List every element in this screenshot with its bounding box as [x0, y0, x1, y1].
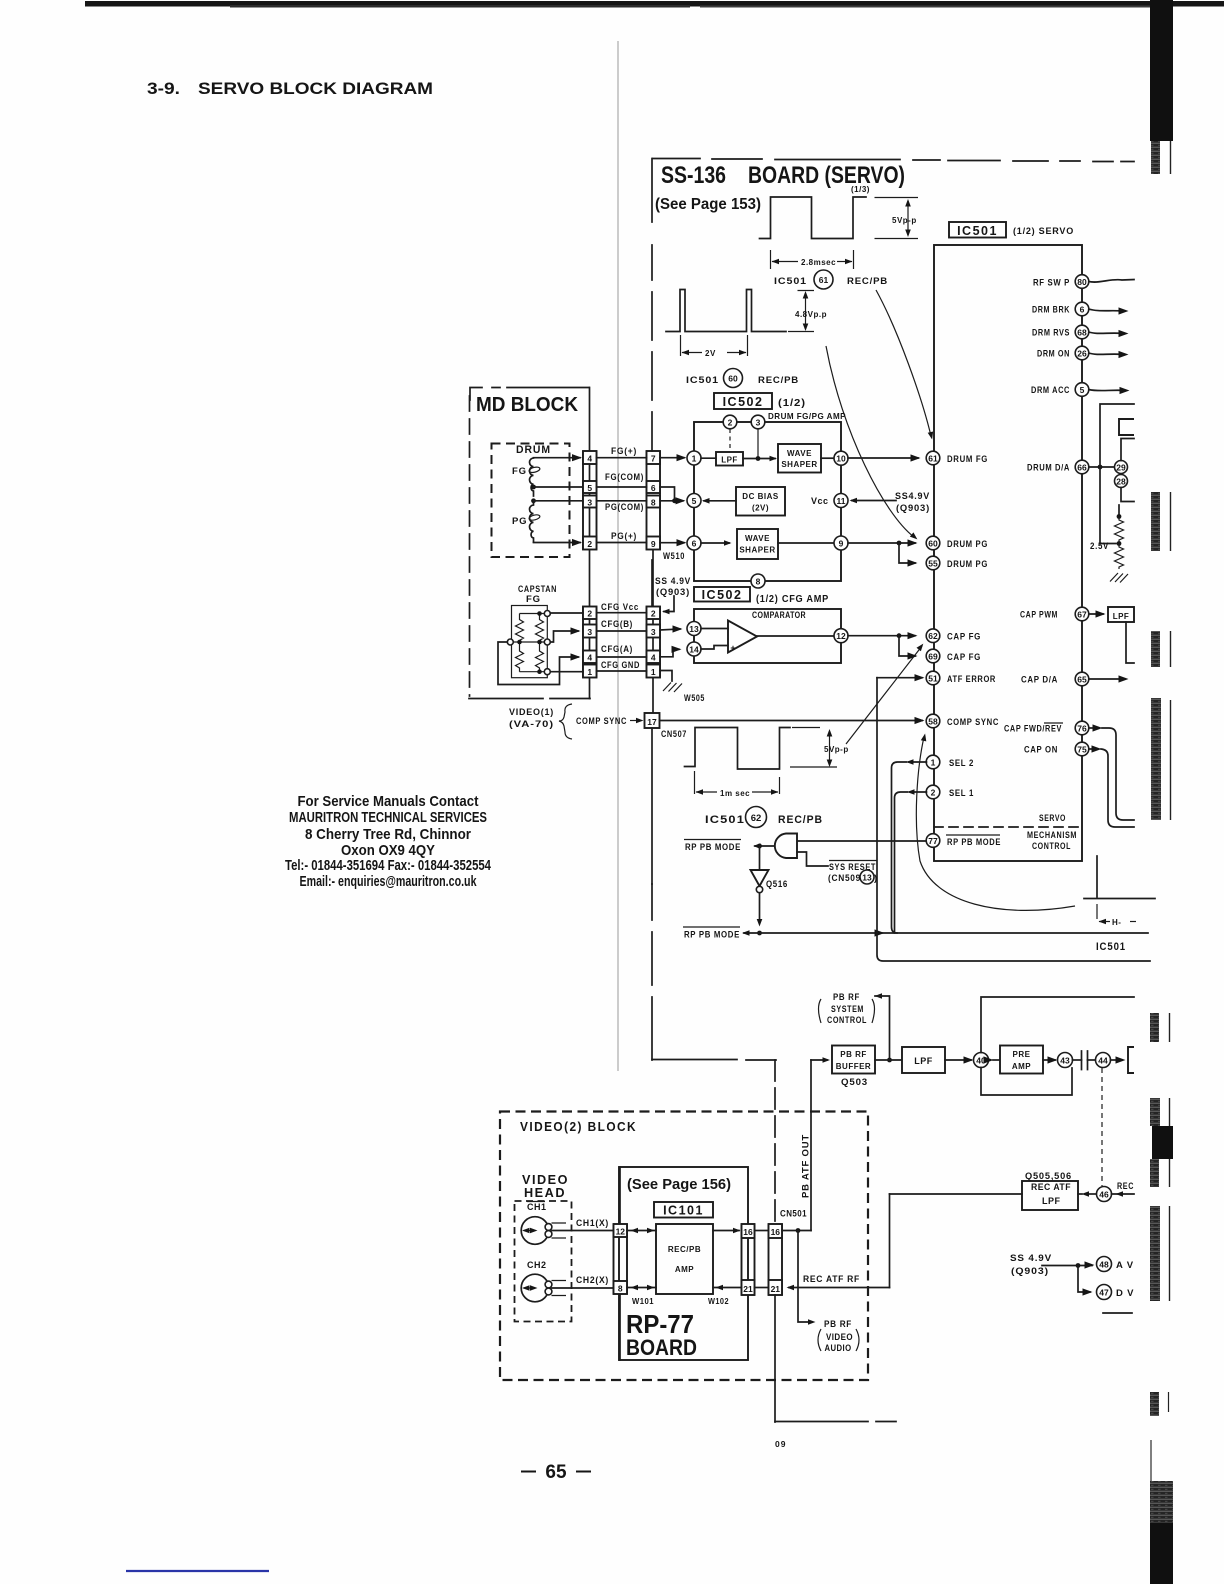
RP-77 board outline [619, 1167, 748, 1360]
wire pin26 [1089, 353, 1124, 355]
wire inverter down [759, 893, 761, 923]
wire CFG(A) from bridge [498, 642, 578, 685]
SEL 1 wire [910, 791, 927, 793]
svg-text:REC ATF RF: REC ATF RF [803, 1274, 860, 1285]
svg-text:5Vp-p: 5Vp-p [892, 216, 917, 225]
resistor divider top stub [1118, 505, 1120, 517]
svg-text:46: 46 [1099, 1190, 1109, 1200]
pin 2 SEL 1 [926, 785, 940, 799]
wire pin29 up [1121, 439, 1134, 461]
wire PG(COM) [534, 500, 584, 502]
svg-text:SHAPER: SHAPER [781, 460, 817, 469]
svg-text:+: + [730, 643, 735, 653]
svg-text:29: 29 [1116, 463, 1126, 473]
wire down to inverter [759, 846, 761, 870]
wire pin46 to LPF [1086, 1193, 1097, 1195]
pin 58 COMP SYNC [926, 714, 940, 728]
ATF ERROR wire to pin51 [877, 677, 922, 679]
right edge hatch marks [1151, 141, 1160, 174]
comparator op-amp triangle [728, 621, 757, 653]
sq-wave 5Vp-p arrow [907, 201, 909, 235]
wire 16B to PB ATF OUT [782, 1230, 811, 1232]
svg-text:SERVO: SERVO [1039, 813, 1066, 824]
pin 10 [834, 451, 848, 465]
wire 66 junction down to resistor [1100, 467, 1116, 544]
svg-text:REC: REC [1117, 1181, 1134, 1192]
wire PB ATF into buffer [811, 1059, 827, 1061]
svg-text:66: 66 [1077, 463, 1087, 473]
wire PG(+) [534, 542, 581, 544]
svg-text:(See Page 153): (See Page 153) [655, 196, 761, 213]
svg-text:PB RF: PB RF [824, 1319, 852, 1330]
node FG(COM) junction [531, 485, 536, 490]
comp-sync dim extensions [790, 728, 837, 768]
svg-text:7: 7 [651, 454, 656, 464]
connector pin 21 B [769, 1280, 783, 1295]
svg-text:W102: W102 [708, 1297, 729, 1306]
svg-text:D V: D V [1116, 1288, 1134, 1299]
svg-text:9: 9 [839, 539, 844, 549]
connector CN pin 4 [583, 451, 597, 464]
pin 61 DRUM FG [926, 451, 940, 465]
connector W510 pin 6 [647, 481, 661, 493]
connector 16/21 strip B [769, 1224, 783, 1295]
svg-text:CAP PWM: CAP PWM [1020, 610, 1058, 621]
junction dot [796, 1228, 801, 1233]
branch to pin47 [1078, 1266, 1090, 1293]
svg-text:5: 5 [587, 483, 592, 493]
bracket component right edge [1128, 1047, 1134, 1073]
svg-text:(2V): (2V) [752, 504, 769, 513]
svg-text:DRM ON: DRM ON [1037, 349, 1070, 360]
svg-text:CN501: CN501 [780, 1209, 807, 1219]
wire pin40 up and right [981, 997, 1134, 1053]
svg-text:4: 4 [587, 653, 592, 663]
svg-text:DRM ACC: DRM ACC [1031, 385, 1070, 396]
connector CN pin 5 [583, 481, 597, 493]
wire pin5 [1089, 390, 1125, 391]
wire opamp to pin12 [757, 635, 834, 637]
pin 14 [687, 642, 701, 656]
pin 8 bottom [751, 574, 765, 588]
wire PG(+) between columns [597, 542, 647, 544]
wire CFG GND between columns [597, 670, 647, 672]
LPF box [716, 452, 743, 466]
wire col4 to pin14 [660, 649, 679, 657]
wire pin40 to PRE AMP [989, 1059, 991, 1061]
svg-text:REC ATF: REC ATF [1031, 1182, 1071, 1192]
svg-text:IC501: IC501 [686, 375, 719, 386]
column A strip sides lower (capstan) [583, 607, 597, 678]
pin 11 [834, 494, 848, 508]
svg-text:2.8msec: 2.8msec [801, 258, 836, 267]
SYS RESET wire to gate [797, 852, 828, 866]
PB RF BUFFER box [832, 1046, 875, 1074]
pin 51 ATF ERROR [926, 671, 940, 685]
1m sec dimension [695, 771, 780, 794]
pin 5 [687, 494, 701, 508]
MD BLOCK bottom border [469, 698, 590, 700]
svg-text:DRUM: DRUM [516, 444, 551, 456]
svg-text:VIDEO: VIDEO [522, 1173, 569, 1187]
wire pin6 to shaper2 [701, 542, 729, 544]
capstan bottom inner wire [520, 671, 548, 673]
svg-text:(VA-70): (VA-70) [509, 719, 554, 730]
wire col8 to pin5 [660, 500, 683, 502]
svg-text:(1/2): (1/2) [778, 398, 806, 409]
svg-text:CH1: CH1 [527, 1202, 547, 1212]
svg-text:COMPARATOR: COMPARATOR [752, 610, 806, 620]
connector W510 pin 8 [647, 496, 661, 508]
svg-text:21: 21 [743, 1284, 753, 1294]
connector 12/8 strip [614, 1224, 628, 1294]
wire PG(COM) between columns [597, 500, 647, 502]
connector CN pin 2 [583, 537, 597, 550]
leader curve to pin61 [876, 290, 931, 436]
stub from pin3 [757, 429, 759, 458]
svg-text:10: 10 [836, 454, 846, 464]
wire right of pin46 [1112, 1193, 1135, 1195]
wire pin77 to AND gate [797, 840, 926, 842]
svg-text:CONTROL: CONTROL [1032, 841, 1071, 852]
AND gate Q-left [775, 834, 797, 859]
svg-text:1: 1 [692, 454, 697, 464]
MD BLOCK left border [469, 396, 471, 696]
connector W505 pin 2 [647, 607, 661, 620]
svg-text:DRUM PG: DRUM PG [947, 539, 988, 550]
junction dot gate output [757, 844, 762, 849]
VIDEO(2) BLOCK dashed outline [500, 1112, 868, 1381]
SS-136 left border dashed [651, 159, 653, 1061]
wire shaper to pin10 [821, 457, 834, 459]
wire 21B REC ATF RF [789, 1287, 890, 1289]
SEL 2 wire [909, 761, 927, 763]
svg-text:2: 2 [931, 788, 936, 798]
SS-136 top border dashed [653, 159, 1134, 162]
node PG(COM) junction [531, 498, 536, 503]
svg-text:SS 4.9V: SS 4.9V [655, 576, 691, 587]
svg-text:SEL 1: SEL 1 [949, 788, 974, 799]
svg-text:51: 51 [928, 674, 938, 684]
IC502 comparator block [694, 609, 841, 663]
LPF box [902, 1047, 945, 1073]
wire LPF down loop [1126, 622, 1134, 663]
svg-text:IC502: IC502 [702, 588, 743, 602]
wire from video block to LPF [890, 1193, 1023, 1195]
svg-text:44: 44 [1098, 1056, 1108, 1066]
blue scan line bottom left [126, 1570, 269, 1572]
leader line to pin62 [846, 646, 922, 744]
svg-text:DRUM FG/PG AMP: DRUM FG/PG AMP [768, 411, 846, 421]
pin 40 [974, 1053, 989, 1068]
capacitor C [1073, 1059, 1082, 1061]
waveform comp-sync [685, 728, 791, 770]
svg-text:BUFFER: BUFFER [836, 1062, 871, 1071]
resistor R-B [516, 642, 524, 672]
pin 44 [1096, 1053, 1111, 1068]
wire SS4.9V to pin48 [1042, 1265, 1092, 1267]
svg-text:17: 17 [647, 717, 657, 727]
4.8Vp.p dimension [788, 291, 814, 332]
svg-text:3: 3 [756, 418, 761, 428]
svg-text:REC/PB: REC/PB [668, 1245, 701, 1254]
svg-text:CH2(X): CH2(X) [576, 1275, 609, 1286]
svg-text:2: 2 [651, 609, 656, 619]
pin 77 RP PB MODE [926, 834, 940, 848]
svg-text:68: 68 [1077, 328, 1087, 338]
junction dot drum pg [897, 541, 902, 546]
svg-text:09: 09 [775, 1439, 786, 1449]
REC/PB AMP box [656, 1224, 713, 1294]
connector 16/21 strip A [742, 1224, 755, 1295]
svg-text:(Q903): (Q903) [896, 503, 930, 514]
pin 28 [1115, 475, 1128, 488]
svg-text:IC501: IC501 [957, 224, 998, 238]
svg-text:9: 9 [651, 539, 656, 549]
svg-text:43: 43 [1060, 1056, 1070, 1066]
brace [559, 704, 572, 739]
top right black block [1150, 0, 1173, 141]
sq-wave dim extension lines [875, 198, 919, 239]
dashed stub from pin2 [729, 429, 731, 452]
svg-text:21: 21 [771, 1284, 781, 1294]
svg-text:62: 62 [751, 813, 762, 824]
drum FG coil [530, 458, 534, 496]
PRE AMP box [1000, 1046, 1043, 1074]
svg-text:REC/PB: REC/PB [778, 814, 823, 826]
svg-text:6: 6 [1080, 305, 1085, 315]
wire DC BIAS to pin5 [704, 500, 736, 502]
wire above connector 12 [619, 1167, 621, 1224]
svg-text:CAP FWD/REV: CAP FWD/REV [1004, 724, 1062, 735]
svg-text:48: 48 [1099, 1260, 1109, 1270]
wire CH2(X) [552, 1287, 614, 1289]
svg-text:DRUM FG: DRUM FG [947, 454, 988, 465]
svg-text:AUDIO: AUDIO [825, 1343, 852, 1353]
svg-text:SYSTEM: SYSTEM [831, 1004, 864, 1015]
drum PG coil [530, 501, 534, 542]
arrow to PB RF system control [875, 993, 883, 999]
svg-text:RP PB MODE: RP PB MODE [947, 837, 1001, 848]
svg-text:BOARD (SERVO): BOARD (SERVO) [748, 162, 905, 189]
svg-text:12: 12 [616, 1227, 626, 1237]
wire pin76 bend down [1089, 727, 1094, 729]
waveform sq-wave pin61 [760, 197, 867, 239]
pin 3 top [751, 415, 765, 429]
svg-text:28: 28 [1116, 477, 1126, 487]
wire shaper2 to pin9 [778, 542, 834, 544]
connector W505 pin 4 [647, 651, 661, 664]
pin 9 [834, 536, 848, 550]
resistor R upper [1115, 517, 1124, 543]
svg-text:2: 2 [587, 539, 592, 549]
svg-text:CFG(B): CFG(B) [601, 619, 633, 630]
svg-text:58: 58 [928, 717, 938, 727]
svg-text:2: 2 [728, 418, 733, 428]
svg-text:12: 12 [836, 631, 846, 641]
svg-text:26: 26 [1077, 349, 1087, 359]
REC ATF LPF box [1022, 1181, 1078, 1210]
junction dots capstan [537, 611, 542, 616]
svg-text:Vcc: Vcc [811, 496, 829, 506]
inverter Q516 [751, 870, 769, 886]
wire AMP to 16 [713, 1230, 739, 1232]
pin 6 [687, 536, 701, 550]
svg-text:IC101: IC101 [663, 1204, 704, 1218]
open node top right [544, 611, 550, 617]
svg-text:RF SW P: RF SW P [1033, 278, 1070, 289]
svg-text:11: 11 [837, 496, 846, 506]
svg-text:For Service Manuals Contact: For Service Manuals Contact [298, 793, 479, 810]
arrow into CN507 [630, 720, 641, 722]
capstan bridge outer box [512, 606, 548, 678]
2.8msec dimension [771, 250, 854, 269]
head CH2 symbol [521, 1274, 549, 1302]
svg-text:16: 16 [743, 1227, 753, 1237]
svg-text:3: 3 [587, 627, 592, 637]
svg-text:A V: A V [1116, 1260, 1134, 1271]
column A spine [589, 388, 591, 699]
ground W505 [663, 683, 682, 693]
W505 column strip sides [647, 607, 661, 678]
junction dot cap fg [897, 633, 902, 638]
svg-text:5: 5 [1080, 385, 1085, 395]
corner to right dashes [775, 1421, 896, 1423]
leader curve from H-mark to pin58 [916, 737, 1075, 910]
svg-text:80: 80 [1077, 277, 1087, 287]
svg-text:75: 75 [1077, 745, 1087, 755]
svg-text:1: 1 [931, 758, 936, 768]
svg-text:CFG Vcc: CFG Vcc [601, 602, 639, 613]
svg-text:2: 2 [587, 609, 592, 619]
wave shaper 2 box [737, 529, 778, 559]
svg-text:Q516: Q516 [766, 879, 788, 890]
wire FG(+) between columns [597, 457, 647, 459]
resistor R-A [516, 614, 524, 643]
wire LPF to wave shaper [743, 458, 775, 460]
svg-text:IC501: IC501 [705, 814, 745, 826]
solid black block right mid [1152, 1126, 1173, 1159]
svg-text:CAP FG: CAP FG [947, 652, 981, 663]
wire up to top tap [1100, 404, 1134, 467]
AND gate output wire [755, 845, 774, 847]
svg-text:IC501: IC501 [774, 276, 807, 287]
svg-text:DRM RVS: DRM RVS [1032, 328, 1070, 339]
open node right bottom [544, 669, 550, 675]
wire pin75 bend down [1089, 748, 1093, 750]
wire col7 to pin1 [660, 457, 684, 459]
CH2 stub leads [552, 1281, 567, 1296]
svg-text:FG: FG [526, 594, 541, 605]
svg-text:PG: PG [512, 516, 527, 527]
pin 12 [834, 629, 848, 643]
comp-sync 5Vp-p arrow [829, 731, 831, 765]
MD BLOCK top border [470, 388, 589, 401]
H-sync marker crossbar [1084, 898, 1155, 900]
2V dimension [681, 335, 748, 356]
svg-text:55: 55 [928, 559, 938, 569]
svg-text:WAVE: WAVE [745, 534, 770, 543]
svg-text:ATF ERROR: ATF ERROR [947, 674, 996, 685]
svg-text:DRUM PG: DRUM PG [947, 559, 988, 570]
svg-text:65: 65 [545, 1462, 567, 1483]
svg-text:(Q903): (Q903) [1011, 1266, 1049, 1277]
junction dot [1076, 1263, 1081, 1268]
wire CFG(A) between columns [597, 656, 647, 658]
svg-text:PB RF: PB RF [833, 992, 860, 1003]
pin 29 [1115, 461, 1128, 474]
dash-dot vertical x775 lower [774, 1295, 776, 1422]
wire col3 to pin13 [660, 629, 680, 630]
svg-text:WAVE: WAVE [787, 449, 812, 458]
wire FG(COM) [534, 486, 584, 488]
svg-text:AMP: AMP [1012, 1062, 1031, 1071]
svg-text:DC BIAS: DC BIAS [742, 492, 779, 501]
dash-dot vertical x775 upper [774, 1060, 776, 1224]
svg-text:67: 67 [1077, 610, 1087, 620]
svg-text:CONTROL: CONTROL [827, 1015, 867, 1026]
svg-text:MECHANISM: MECHANISM [1027, 830, 1077, 841]
svg-text:4: 4 [587, 454, 592, 464]
head CH1 symbol [521, 1217, 549, 1245]
wire 21 to AMP [713, 1287, 742, 1289]
open node left mid [507, 639, 513, 645]
svg-text:65: 65 [1077, 675, 1087, 685]
REC ATF RF vertical [889, 1194, 891, 1288]
svg-text:SEL 2: SEL 2 [949, 758, 974, 769]
wire pin13 to opamp [701, 628, 728, 630]
svg-text:CN507: CN507 [661, 729, 687, 740]
svg-text:(Q903): (Q903) [656, 587, 690, 598]
svg-text:LPF: LPF [721, 456, 738, 465]
faint page fold line [617, 41, 619, 1071]
svg-text:3-9.: 3-9. [147, 80, 180, 98]
wire CFG Vcc between columns [597, 612, 647, 614]
wire pin67 to LPF [1089, 613, 1103, 615]
svg-text:62: 62 [928, 631, 938, 641]
wire pin9 to IC501 pin60 [848, 542, 915, 544]
wire col9 to pin6 [660, 542, 684, 544]
wire pin44 right [1111, 1059, 1123, 1061]
wire CH1(X) [552, 1230, 614, 1232]
pin 48 [1097, 1257, 1112, 1272]
pin 62 CAP FG [926, 629, 940, 643]
pin 13 [687, 622, 701, 636]
svg-text:Email:- enquiries@mauritron.co: Email:- enquiries@mauritron.co.uk [300, 873, 477, 890]
wire below connector 8 [619, 1294, 621, 1360]
wire FG(COM) between columns [597, 486, 647, 488]
svg-text:Oxon OX9 4QY: Oxon OX9 4QY [341, 842, 435, 859]
ground symbol [1110, 573, 1128, 583]
wire PRE AMP to pin43 [1043, 1059, 1055, 1061]
connector CN2 pin 2 [583, 607, 597, 620]
branch to pin69 [899, 636, 915, 656]
svg-text:2.5V: 2.5V [1090, 541, 1109, 552]
pin 1 [687, 451, 701, 465]
svg-text:H-: H- [1112, 918, 1121, 927]
resistor R-D [536, 642, 544, 672]
connector pin 12 [614, 1224, 628, 1237]
svg-text:13: 13 [689, 624, 699, 634]
H-sync marker vertical [1096, 856, 1098, 897]
ATF ERROR vertical line [877, 678, 1150, 961]
svg-text:REC/PB: REC/PB [758, 375, 799, 386]
svg-text:Q503: Q503 [841, 1077, 868, 1088]
svg-text:SERVO BLOCK DIAGRAM: SERVO BLOCK DIAGRAM [198, 80, 433, 98]
svg-text:DRM BRK: DRM BRK [1032, 305, 1070, 316]
svg-text:SS-136: SS-136 [661, 162, 726, 189]
connector W505 pin 1 [647, 665, 661, 678]
